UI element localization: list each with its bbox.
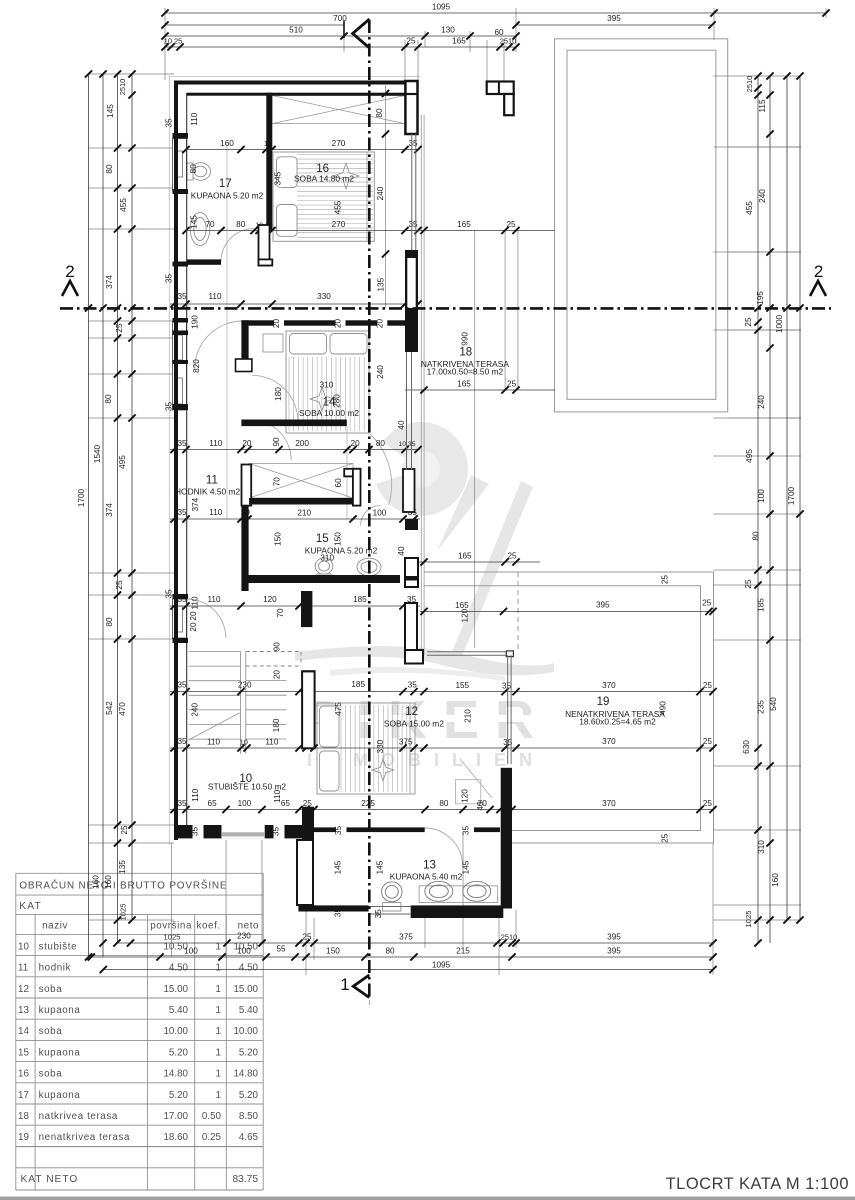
svg-text:5.40: 5.40	[169, 1005, 189, 1016]
svg-text:70: 70	[276, 608, 285, 618]
svg-text:SOBA 14.80 m2: SOBA 14.80 m2	[294, 174, 354, 184]
svg-text:240: 240	[376, 186, 385, 200]
toilet bath 17	[187, 163, 211, 181]
section line 1 (vertical dash-dot)	[368, 20, 371, 1000]
partition end piece	[259, 225, 270, 266]
svg-text:16: 16	[18, 1069, 29, 1080]
svg-text:145: 145	[334, 860, 343, 874]
svg-text:15.00: 15.00	[233, 984, 258, 995]
svg-text:80: 80	[439, 799, 449, 808]
svg-text:185: 185	[351, 680, 365, 689]
svg-text:195: 195	[756, 291, 765, 305]
svg-text:12: 12	[405, 706, 418, 718]
svg-text:20: 20	[375, 319, 384, 329]
svg-text:OBRAČUN NETO I BRUTTO POVRŠINE: OBRAČUN NETO I BRUTTO POVRŠINE	[19, 879, 227, 892]
svg-text:10 35: 10 35	[398, 441, 415, 448]
svg-text:210: 210	[297, 509, 311, 518]
hallway top wall	[241, 420, 346, 427]
svg-text:35: 35	[177, 508, 187, 517]
section marker 1 bottom	[353, 975, 369, 998]
right wall segments room 12	[405, 335, 418, 352]
right wall lower outline	[405, 603, 417, 650]
bed room 12	[317, 703, 415, 794]
room 14 top wall	[241, 320, 418, 325]
svg-text:35: 35	[408, 681, 418, 690]
svg-text:19: 19	[597, 696, 610, 708]
svg-text:80: 80	[376, 439, 386, 448]
svg-text:KAT: KAT	[19, 901, 42, 912]
svg-text:15.00: 15.00	[163, 984, 188, 995]
svg-text:10: 10	[18, 941, 29, 952]
svg-text:110: 110	[207, 738, 220, 747]
door bath 13	[425, 828, 463, 866]
svg-text:80: 80	[105, 617, 114, 627]
wall thickness labels bath13	[336, 824, 347, 839]
svg-text:15: 15	[316, 533, 329, 545]
svg-text:35: 35	[334, 826, 343, 836]
svg-text:10: 10	[240, 738, 248, 747]
bed room 14	[263, 331, 369, 433]
svg-text:1540: 1540	[93, 444, 102, 463]
svg-text:25: 25	[507, 380, 517, 389]
bottom dimension chains	[88, 932, 717, 974]
svg-text:površina: površina	[150, 920, 192, 931]
svg-text:160: 160	[771, 873, 780, 887]
svg-text:160: 160	[220, 139, 234, 148]
svg-text:18: 18	[459, 347, 472, 359]
svg-text:14: 14	[18, 1026, 29, 1037]
interior dimension lines	[170, 139, 717, 918]
svg-text:100: 100	[238, 799, 252, 808]
svg-text:130: 130	[441, 26, 455, 35]
svg-text:240: 240	[757, 395, 766, 409]
svg-text:990: 990	[461, 332, 470, 346]
svg-text:koef.: koef.	[197, 920, 221, 931]
svg-text:55: 55	[276, 945, 286, 954]
hallway left wall stub	[242, 465, 252, 506]
svg-text:17: 17	[18, 1090, 29, 1101]
top dimension chain	[161, 3, 829, 51]
svg-text:19: 19	[18, 1132, 29, 1143]
bath15 bottom wall	[242, 575, 400, 583]
svg-text:83.75: 83.75	[233, 1174, 259, 1185]
svg-text:STUBIŠTE 10.50 m2: STUBIŠTE 10.50 m2	[208, 782, 287, 792]
svg-text:150: 150	[333, 532, 342, 546]
svg-text:soba: soba	[39, 984, 63, 995]
svg-text:35: 35	[272, 827, 281, 837]
svg-text:145: 145	[106, 104, 115, 118]
svg-text:345: 345	[273, 171, 282, 185]
svg-text:soba: soba	[39, 1026, 63, 1037]
door room 14	[252, 375, 298, 421]
section line 2 (horizontal dash-dot)	[60, 307, 831, 310]
pool outline (upper right)	[555, 39, 728, 412]
svg-text:1025: 1025	[744, 911, 753, 928]
svg-text:165: 165	[457, 380, 471, 389]
svg-text:145: 145	[189, 215, 198, 229]
svg-text:2510: 2510	[118, 79, 127, 95]
svg-text:370: 370	[602, 681, 616, 690]
svg-text:80: 80	[189, 164, 198, 174]
svg-text:20: 20	[242, 439, 252, 448]
bath 13 bottom wall	[298, 905, 368, 911]
svg-text:KUPAONA 5.20 m2: KUPAONA 5.20 m2	[305, 546, 378, 556]
svg-text:210: 210	[464, 709, 473, 723]
svg-text:215: 215	[456, 947, 470, 956]
svg-text:80: 80	[375, 108, 384, 118]
svg-text:KAT NETO: KAT NETO	[21, 1174, 79, 1185]
svg-text:100: 100	[757, 489, 766, 503]
svg-text:25: 25	[703, 737, 713, 746]
exterior wall top	[174, 81, 418, 85]
svg-text:5.20: 5.20	[239, 1047, 259, 1058]
bath 13 right wall	[501, 768, 512, 909]
svg-text:soba: soba	[39, 1069, 63, 1080]
svg-text:510: 510	[289, 26, 303, 35]
svg-text:35: 35	[177, 292, 187, 301]
svg-text:375: 375	[399, 738, 413, 747]
double sink bath 13	[419, 881, 498, 902]
svg-text:395: 395	[607, 947, 621, 956]
bed room 16	[273, 152, 374, 241]
svg-text:374: 374	[105, 503, 114, 517]
svg-text:375: 375	[399, 933, 413, 942]
terrace corner pillar	[487, 82, 514, 95]
svg-text:25: 25	[303, 799, 313, 808]
svg-text:0.50: 0.50	[202, 1111, 222, 1122]
svg-text:20: 20	[189, 611, 198, 621]
svg-text:13: 13	[423, 860, 436, 872]
svg-text:14.80: 14.80	[163, 1069, 188, 1080]
svg-text:470: 470	[118, 702, 127, 716]
right wall window room16	[411, 134, 413, 253]
svg-text:495: 495	[745, 449, 754, 463]
stairs right wall lower	[302, 671, 315, 748]
svg-text:145: 145	[376, 860, 385, 874]
svg-text:10 25: 10 25	[164, 37, 183, 46]
svg-text:kupaona: kupaona	[39, 1005, 81, 1016]
svg-text:230: 230	[237, 932, 251, 941]
svg-text:110: 110	[209, 508, 222, 517]
svg-text:stubište: stubište	[39, 941, 78, 952]
svg-text:35: 35	[502, 682, 512, 691]
svg-text:1: 1	[216, 963, 221, 974]
svg-text:190: 190	[191, 315, 200, 329]
svg-text:20: 20	[351, 439, 361, 448]
svg-text:11: 11	[18, 963, 28, 974]
partition bath15 left	[241, 505, 248, 591]
svg-text:1: 1	[216, 1069, 221, 1080]
svg-text:100: 100	[184, 947, 198, 956]
svg-text:60: 60	[334, 478, 343, 488]
bottom wall stairs part	[174, 825, 306, 838]
right wall mid segment	[405, 250, 418, 335]
svg-text:kupaona: kupaona	[39, 1047, 81, 1058]
svg-text:70: 70	[205, 220, 215, 229]
svg-text:310: 310	[757, 840, 766, 854]
svg-text:35: 35	[177, 681, 187, 690]
svg-text:700: 700	[333, 14, 347, 23]
svg-text:65: 65	[281, 799, 291, 808]
door bath 15	[361, 506, 381, 526]
svg-text:495: 495	[118, 455, 127, 469]
svg-text:165: 165	[452, 37, 466, 46]
svg-text:15: 15	[18, 1047, 29, 1058]
svg-text:540: 540	[769, 697, 778, 711]
svg-text:110: 110	[190, 112, 199, 125]
sink bath 17	[190, 212, 210, 245]
svg-text:630: 630	[742, 740, 751, 754]
svg-text:20: 20	[272, 319, 281, 329]
svg-text:18.60: 18.60	[163, 1132, 188, 1143]
svg-text:25: 25	[661, 575, 670, 585]
svg-text:160: 160	[104, 875, 113, 889]
svg-text:13: 13	[18, 1005, 29, 1016]
svg-text:115: 115	[758, 99, 767, 112]
svg-text:4.50: 4.50	[169, 963, 189, 974]
svg-text:110: 110	[191, 788, 200, 801]
svg-text:110: 110	[208, 292, 221, 301]
svg-text:150: 150	[326, 947, 340, 956]
svg-text:1: 1	[340, 975, 349, 994]
left dimension chains	[77, 70, 136, 960]
svg-text:80: 80	[236, 220, 246, 229]
svg-text:200: 200	[295, 439, 309, 448]
svg-text:1: 1	[216, 1090, 221, 1101]
svg-text:395: 395	[607, 14, 621, 23]
svg-text:35: 35	[177, 799, 187, 808]
watermark swoosh leaves	[295, 475, 554, 681]
svg-text:1025: 1025	[119, 904, 128, 921]
interior rotated dim labels	[165, 90, 670, 843]
svg-text:KUPAONA 5.40 m2: KUPAONA 5.40 m2	[390, 872, 463, 882]
svg-text:18.60x0.25=4.65 m2: 18.60x0.25=4.65 m2	[579, 716, 656, 726]
interior horizontal dim labels	[320, 381, 335, 563]
svg-text:10.00: 10.00	[233, 1026, 258, 1037]
bath17 bottom wall	[187, 259, 221, 264]
toilet bath 15	[315, 558, 333, 581]
svg-text:1025: 1025	[164, 933, 181, 942]
svg-text:165: 165	[457, 220, 471, 229]
svg-text:1: 1	[216, 1005, 221, 1016]
svg-text:40: 40	[397, 420, 406, 430]
door stairs	[187, 599, 226, 638]
svg-text:165: 165	[458, 552, 472, 561]
svg-text:TLOCRT KATA M 1:100: TLOCRT KATA M 1:100	[666, 1175, 849, 1193]
svg-text:25: 25	[406, 37, 416, 46]
svg-text:180: 180	[274, 387, 283, 401]
svg-text:20: 20	[334, 319, 343, 329]
door room12/bath13 leaf	[460, 759, 493, 799]
svg-text:0.25: 0.25	[202, 1132, 222, 1143]
svg-text:110: 110	[209, 439, 222, 448]
svg-text:330: 330	[317, 292, 331, 301]
svg-text:35: 35	[408, 220, 418, 229]
svg-text:150: 150	[273, 532, 282, 546]
svg-text:17.00: 17.00	[163, 1111, 188, 1122]
right dimension chains	[742, 72, 804, 946]
svg-text:2510: 2510	[501, 933, 517, 942]
svg-text:hodnik: hodnik	[39, 963, 71, 974]
watermark letters RIKER	[302, 690, 550, 750]
svg-text:25: 25	[744, 317, 753, 327]
svg-text:20: 20	[272, 670, 281, 680]
svg-text:185: 185	[353, 595, 367, 604]
svg-text:25: 25	[661, 833, 670, 843]
window boxes left wall	[173, 139, 187, 639]
svg-text:25: 25	[115, 580, 124, 590]
svg-text:25: 25	[507, 552, 517, 561]
svg-text:10.00: 10.00	[163, 1026, 188, 1037]
svg-text:80: 80	[105, 164, 114, 174]
svg-text:25: 25	[702, 599, 712, 608]
svg-text:18: 18	[18, 1111, 29, 1122]
svg-text:120: 120	[460, 789, 469, 803]
partition bath17 / room16	[266, 93, 272, 230]
svg-text:25: 25	[703, 681, 713, 690]
svg-text:1095: 1095	[432, 3, 451, 12]
svg-text:1000: 1000	[775, 314, 784, 333]
right pillar top	[405, 81, 417, 134]
svg-text:180: 180	[272, 718, 281, 732]
svg-text:455: 455	[334, 200, 343, 214]
nightstand room 14	[263, 334, 283, 352]
svg-text:HODNIK 4.50 m2: HODNIK 4.50 m2	[175, 487, 241, 497]
door bath 17	[221, 229, 254, 262]
bottom separator bar	[0, 1197, 855, 1200]
svg-text:155: 155	[455, 681, 469, 690]
svg-text:25: 25	[506, 220, 516, 229]
svg-text:1: 1	[216, 1026, 221, 1037]
stairs right wall bottom	[302, 807, 314, 840]
svg-text:5.40: 5.40	[239, 1005, 259, 1016]
svg-text:160: 160	[92, 875, 101, 889]
svg-text:35: 35	[177, 737, 187, 746]
svg-text:1700: 1700	[787, 486, 796, 505]
svg-text:25: 25	[302, 933, 312, 942]
svg-text:1: 1	[216, 984, 221, 995]
door hallway/room top	[251, 420, 291, 460]
bath15 right wall	[403, 469, 415, 512]
svg-text:145: 145	[461, 860, 470, 874]
svg-text:240: 240	[191, 703, 200, 717]
section marker 1 top	[353, 19, 370, 48]
svg-text:35: 35	[177, 439, 187, 448]
svg-text:80: 80	[385, 947, 395, 956]
L wall right of closet	[344, 469, 360, 477]
stair cut line	[189, 713, 240, 740]
svg-text:35: 35	[408, 139, 418, 148]
svg-text:25: 25	[744, 579, 753, 589]
svg-text:80: 80	[752, 531, 761, 541]
svg-text:70: 70	[272, 477, 281, 487]
left wall inner face	[186, 93, 188, 826]
svg-text:135: 135	[118, 860, 127, 874]
svg-text:374: 374	[191, 497, 200, 511]
door room 16/hall top	[195, 321, 243, 369]
door jamb room 14	[236, 359, 252, 372]
svg-text:12: 12	[18, 984, 29, 995]
svg-text:455: 455	[119, 198, 128, 212]
right wall window room12 upper	[406, 352, 408, 470]
svg-text:35: 35	[165, 118, 174, 128]
svg-text:1095: 1095	[432, 961, 451, 970]
closet room 16	[272, 96, 405, 124]
svg-text:35: 35	[165, 589, 174, 599]
toilet bath 13	[382, 882, 402, 911]
bath 13 top wall	[314, 827, 425, 832]
svg-text:4.50: 4.50	[239, 963, 259, 974]
svg-text:KUPAONA 5.20 m2: KUPAONA 5.20 m2	[191, 190, 264, 200]
svg-text:40: 40	[476, 801, 485, 811]
svg-text:120: 120	[263, 595, 277, 604]
wall under closet	[249, 498, 353, 505]
svg-text:374: 374	[105, 275, 114, 289]
glass wall room12 / terrace18 bottom	[427, 651, 511, 653]
svg-text:SOBA 10.00 m2: SOBA 10.00 m2	[299, 408, 359, 418]
svg-text:90: 90	[272, 642, 281, 652]
svg-text:65: 65	[208, 799, 218, 808]
closet hallway 11	[249, 463, 353, 498]
wall thickness labels room14 top wall	[274, 316, 284, 330]
svg-text:35: 35	[462, 826, 471, 836]
svg-text:110: 110	[191, 596, 200, 609]
watermark RIKER IMMOBILIEN logo circle	[372, 422, 468, 516]
svg-text:2: 2	[65, 262, 74, 281]
exterior wall left outer face	[174, 81, 178, 841]
roof eave outline	[168, 77, 170, 846]
svg-text:310: 310	[320, 381, 334, 390]
sink bath 15	[357, 558, 381, 576]
svg-text:14: 14	[323, 397, 336, 409]
svg-text:4.65: 4.65	[239, 1132, 259, 1143]
svg-text:270: 270	[332, 220, 346, 229]
svg-text:235: 235	[757, 700, 766, 714]
svg-text:1: 1	[216, 1047, 221, 1058]
svg-text:185: 185	[757, 598, 766, 612]
svg-text:35: 35	[165, 274, 174, 284]
svg-text:25: 25	[120, 825, 129, 835]
stairs room 10	[189, 652, 302, 754]
svg-text:17: 17	[219, 178, 232, 190]
top wall inner face (bath17/room16)	[187, 93, 405, 96]
svg-text:nenatkrivea terasa: nenatkrivea terasa	[39, 1132, 130, 1143]
svg-text:neto: neto	[238, 920, 259, 931]
svg-text:17.00x0.50=8.50 m2: 17.00x0.50=8.50 m2	[427, 367, 504, 377]
svg-text:100: 100	[373, 509, 387, 518]
svg-text:270: 270	[332, 139, 346, 148]
svg-text:100: 100	[237, 947, 251, 956]
svg-text:395: 395	[607, 933, 621, 942]
svg-text:240: 240	[376, 365, 385, 379]
svg-text:395: 395	[596, 601, 610, 610]
svg-text:40: 40	[397, 546, 406, 556]
svg-text:35: 35	[191, 827, 200, 837]
svg-text:kupaona: kupaona	[39, 1090, 81, 1101]
svg-text:230: 230	[238, 681, 252, 690]
svg-text:14.80: 14.80	[233, 1069, 258, 1080]
svg-text:2510: 2510	[500, 37, 516, 46]
svg-text:90: 90	[272, 437, 281, 447]
svg-text:5.20: 5.20	[169, 1090, 189, 1101]
svg-text:8.50: 8.50	[239, 1111, 259, 1122]
svg-text:475: 475	[334, 702, 343, 716]
svg-text:1700: 1700	[77, 488, 86, 507]
svg-text:330: 330	[376, 739, 385, 753]
svg-text:370: 370	[602, 799, 616, 808]
extension lines	[88, 8, 826, 1005]
svg-text:542: 542	[105, 701, 114, 715]
